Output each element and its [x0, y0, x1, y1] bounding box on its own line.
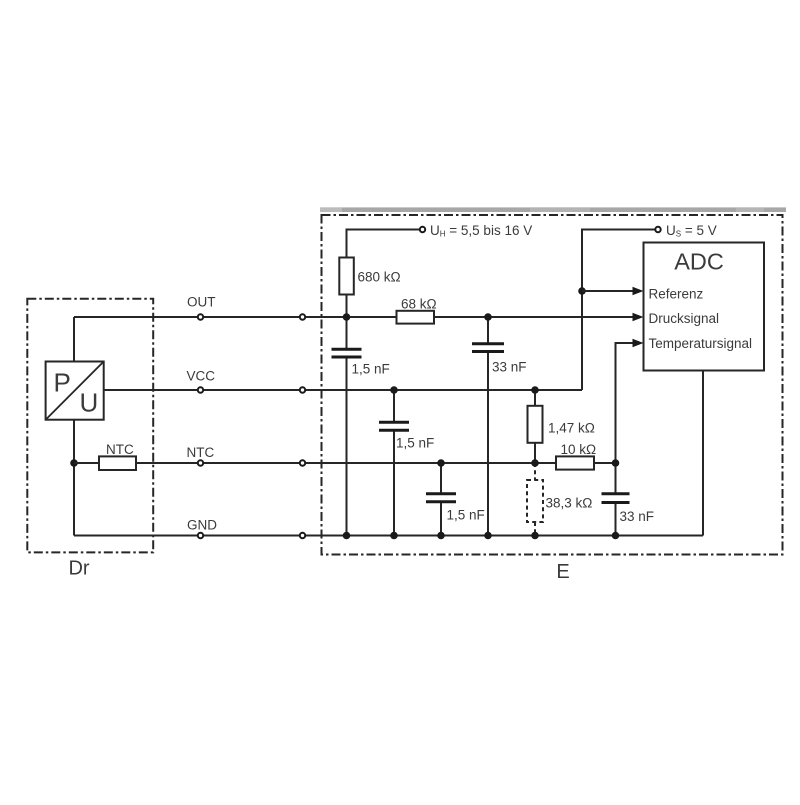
ADC block U1 — [644, 243, 765, 371]
node junctions on GND line — [343, 532, 351, 540]
svg-text:NTC: NTC — [187, 445, 215, 460]
svg-text:ADC: ADC — [674, 249, 724, 275]
svg-text:GND: GND — [187, 518, 217, 533]
wire OUT line — [74, 316, 634, 318]
svg-text:33 nF: 33 nF — [620, 509, 655, 524]
wire NTC line — [136, 462, 616, 464]
capacitor C3 1,5 nF — [426, 494, 485, 523]
svg-text:VCC: VCC — [187, 369, 216, 384]
svg-text:680 kΩ: 680 kΩ — [358, 270, 401, 285]
svg-text:OUT: OUT — [187, 295, 216, 310]
wire vertical C with capacitor C3 — [440, 463, 442, 493]
svg-text:Drucksignal: Drucksignal — [649, 311, 720, 326]
resistor R1 680 kOhm — [339, 258, 400, 318]
wire VCC line — [104, 389, 582, 391]
terminal UH — [420, 227, 425, 232]
wire: vertical from P/U top to OUT line — [73, 317, 75, 362]
svg-text:Dr: Dr — [68, 558, 89, 580]
svg-text:10 kΩ: 10 kΩ — [561, 442, 597, 457]
svg-text:38,3 kΩ: 38,3 kΩ — [546, 496, 593, 511]
wire vertical F to Temperatursignal with capacitor C5 — [616, 343, 635, 463]
node: junction on Referenz feed — [578, 287, 586, 295]
svg-text:1,5 nF: 1,5 nF — [396, 436, 434, 451]
Dr sensor box (dash-dot border) — [27, 299, 153, 553]
svg-text:1,5 nF: 1,5 nF — [447, 508, 485, 523]
terminal circles OUT — [198, 314, 203, 319]
svg-text:NTC: NTC — [106, 442, 134, 457]
svg-text:U: U — [80, 388, 99, 418]
node: junction in Dr box at NTC branch — [70, 459, 78, 467]
capacitor C4 33 nF — [472, 344, 527, 375]
wire US supply branch and Referenz feed — [582, 230, 655, 391]
node junctions on OUT line — [343, 313, 351, 321]
svg-text:Referenz: Referenz — [649, 286, 704, 301]
wire vertical B with capacitor C2 — [393, 390, 395, 421]
E evaluation box (dash-dot border) — [322, 215, 783, 555]
wire: vertical from P/U bottom to GND line — [73, 420, 75, 536]
terminal circles NTC — [198, 460, 203, 465]
wire UH supply branch — [347, 230, 420, 258]
capacitor C2 1,5 nF — [379, 422, 434, 450]
wire Referenz arrow line — [582, 290, 634, 292]
svg-text:68 kΩ: 68 kΩ — [401, 297, 437, 312]
terminal circles GND — [198, 533, 203, 538]
node junctions on NTC line — [437, 459, 445, 467]
gray scan shading bar above E box — [320, 207, 786, 212]
svg-text:1,5 nF: 1,5 nF — [352, 362, 390, 377]
resistor R4 10 kOhm — [556, 442, 596, 470]
sensor element P/U — [46, 362, 104, 420]
svg-text:UH = 5,5 bis 16 V: UH = 5,5 bis 16 V — [430, 223, 532, 239]
capacitor C5 33 nF — [602, 494, 655, 524]
terminal circles VCC — [198, 387, 203, 392]
svg-text:E: E — [556, 561, 569, 583]
resistor R2 68 kOhm — [397, 297, 437, 324]
resistor R5 38,3 kOhm (dashed, optional) — [527, 463, 592, 536]
svg-text:1,47 kΩ: 1,47 kΩ — [548, 421, 595, 436]
wire GND line — [74, 535, 703, 537]
terminal US — [655, 227, 660, 232]
svg-text:33 nF: 33 nF — [492, 360, 527, 375]
arrow into Drucksignal pin — [633, 313, 644, 321]
arrow into Temperatursignal pin — [633, 339, 644, 347]
wire vertical A with capacitor C1 — [346, 317, 348, 348]
svg-text:P: P — [54, 368, 71, 398]
resistor R3 1,47 kOhm — [528, 390, 595, 463]
node junctions on VCC line — [390, 386, 398, 394]
arrow into Referenz pin — [633, 287, 644, 295]
svg-text:US = 5 V: US = 5 V — [666, 223, 717, 239]
wire vertical D with capacitor C4 — [487, 317, 489, 343]
wire from ADC bottom to GND line — [702, 371, 704, 536]
resistor NTC — [74, 442, 136, 470]
capacitor C1 1,5 nF — [332, 349, 390, 376]
svg-text:Temperatursignal: Temperatursignal — [649, 336, 753, 351]
